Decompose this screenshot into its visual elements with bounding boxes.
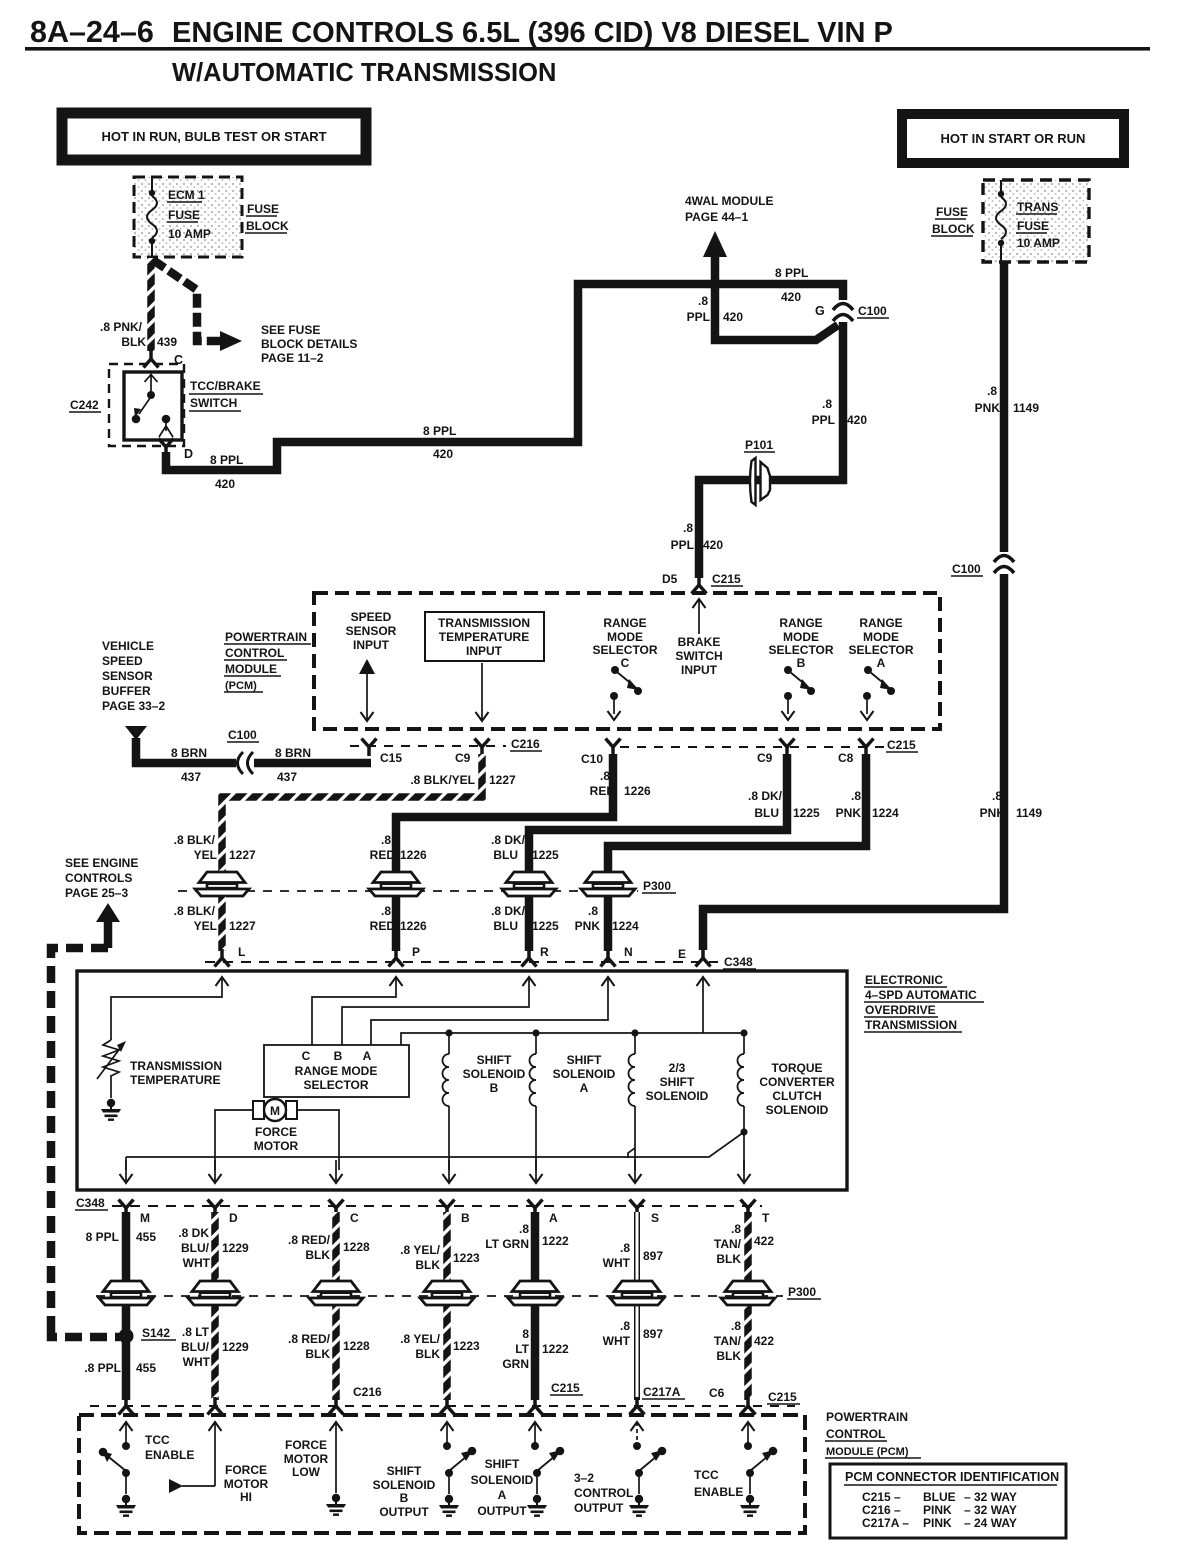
svg-text:.8 RED/: .8 RED/ xyxy=(288,1332,331,1346)
svg-text:.8: .8 xyxy=(381,904,391,918)
svg-text:A: A xyxy=(580,1081,589,1095)
label .8 LT GRN 1222 (upper) xyxy=(485,1222,569,1251)
label C348 (top) xyxy=(723,955,756,969)
label .8 BLK/YEL 1227 (below grommet) xyxy=(174,904,256,933)
node E xyxy=(678,947,711,967)
svg-text:10 AMP: 10 AMP xyxy=(168,227,211,241)
svg-text:ENABLE: ENABLE xyxy=(145,1448,194,1462)
svg-text:455: 455 xyxy=(136,1361,156,1375)
wire .8 PPL 420 from C100 to P101 to D5 xyxy=(699,322,843,578)
label .8 RED/BLK 1228 (lower) xyxy=(288,1332,370,1361)
svg-text:RED: RED xyxy=(590,784,616,798)
svg-text:.8 BLK/: .8 BLK/ xyxy=(174,904,216,918)
node C (C348) xyxy=(329,1200,360,1226)
svg-text:C: C xyxy=(350,1211,359,1225)
svg-text:2/3: 2/3 xyxy=(669,1061,686,1075)
feed box HOT IN START OR RUN xyxy=(902,114,1124,163)
svg-text:1228: 1228 xyxy=(343,1339,370,1353)
svg-text:BRAKE: BRAKE xyxy=(678,635,721,649)
svg-text:SHIFT: SHIFT xyxy=(485,1457,520,1471)
svg-text:.8 YEL/: .8 YEL/ xyxy=(400,1332,440,1346)
svg-text:8 PPL: 8 PPL xyxy=(86,1230,119,1244)
svg-text:1225: 1225 xyxy=(793,806,820,820)
svg-text:420: 420 xyxy=(703,538,723,552)
label 8 PPL 420 (lower left) xyxy=(210,453,243,491)
svg-text:MODE: MODE xyxy=(607,630,643,644)
thermistor lead + ground xyxy=(110,1075,112,1098)
wire .8 WHT 897 (S column, white) xyxy=(634,1212,640,1400)
svg-text:C: C xyxy=(621,656,630,670)
entry arrow E (transmission) xyxy=(697,977,710,986)
svg-text:FORCE: FORCE xyxy=(225,1463,267,1477)
label .8 PNK 1224 (top) xyxy=(836,789,899,820)
svg-text:CONVERTER: CONVERTER xyxy=(759,1075,835,1089)
svg-text:PINK: PINK xyxy=(923,1516,952,1530)
label BRAKE SWITCH INPUT xyxy=(675,635,722,677)
connector P101 xyxy=(744,438,775,505)
svg-text:TORQUE: TORQUE xyxy=(771,1061,822,1075)
svg-text:.8 RED/: .8 RED/ xyxy=(288,1233,331,1247)
svg-text:BLK: BLK xyxy=(415,1347,440,1361)
svg-text:TAN/: TAN/ xyxy=(714,1237,742,1251)
svg-text:420: 420 xyxy=(215,477,235,491)
svg-text:TCC: TCC xyxy=(694,1468,719,1482)
switch range mode selector B xyxy=(782,666,816,720)
node D (TCC/brake switch) xyxy=(159,439,194,462)
svg-text:RANGE: RANGE xyxy=(859,616,902,630)
svg-text:S: S xyxy=(651,1211,659,1225)
svg-text:420: 420 xyxy=(723,310,743,324)
svg-text:PAGE 25–3: PAGE 25–3 xyxy=(65,886,128,900)
svg-text:SELECTOR: SELECTOR xyxy=(592,643,657,657)
svg-text:C217A –: C217A – xyxy=(862,1516,909,1530)
wire 8 PPL dashed feed (left side) xyxy=(51,948,120,1337)
switch range mode selector A xyxy=(861,666,896,720)
node A (bottom PCM) xyxy=(528,1397,543,1415)
label 8 BRN 437 (left) xyxy=(171,746,207,784)
arrow from VSS buffer xyxy=(125,726,147,740)
svg-text:PCM CONNECTOR IDENTIFICATION: PCM CONNECTOR IDENTIFICATION xyxy=(845,1470,1059,1484)
svg-text:A: A xyxy=(549,1211,558,1225)
label .8 TAN/BLK 422 (upper) xyxy=(714,1222,774,1266)
svg-text:BLOCK DETAILS: BLOCK DETAILS xyxy=(261,337,357,351)
svg-text:C15: C15 xyxy=(380,751,402,765)
label RANGE MODE SELECTOR B xyxy=(768,616,833,670)
wire M column drop xyxy=(125,1157,127,1170)
svg-text:SEE ENGINE: SEE ENGINE xyxy=(65,856,138,870)
svg-text:BLK: BLK xyxy=(716,1349,741,1363)
bulkhead dashed line P300 (lower) xyxy=(96,1295,783,1297)
grommet P300 D xyxy=(188,1281,242,1305)
svg-text:C215: C215 xyxy=(551,1381,580,1395)
label .8 DK BLU/WHT 1229 (upper) xyxy=(178,1226,249,1270)
wire P to range selector pin C xyxy=(312,977,396,1045)
label TCC/BRAKE SWITCH xyxy=(189,379,263,411)
svg-text:FUSE: FUSE xyxy=(1017,219,1049,233)
label 8 LT GRN 1222 (lower) xyxy=(502,1327,569,1371)
svg-text:PINK: PINK xyxy=(923,1503,952,1517)
label .8 RED 1226 (above grommet) xyxy=(370,833,427,862)
node T (bottom PCM) xyxy=(741,1397,756,1415)
grommet P300 A xyxy=(508,1281,562,1305)
svg-text:SPEED: SPEED xyxy=(351,610,392,624)
svg-text:RED: RED xyxy=(370,848,396,862)
label RANGE MODE SELECTOR C xyxy=(592,616,657,670)
svg-text:– 24 WAY: – 24 WAY xyxy=(964,1516,1017,1530)
switch TCC/BRAKE xyxy=(124,372,182,440)
svg-text:P: P xyxy=(412,945,420,959)
note VEHICLE SPEED SENSOR BUFFER PAGE 33-2 xyxy=(102,639,165,713)
svg-text:420: 420 xyxy=(781,290,801,304)
arrow force motor hi xyxy=(169,1479,183,1493)
connector line C215 (bottom) xyxy=(620,746,884,748)
svg-text:FUSE: FUSE xyxy=(168,208,200,222)
svg-text:SOLENOID: SOLENOID xyxy=(553,1067,616,1081)
svg-text:C348: C348 xyxy=(76,1196,105,1210)
svg-text:G: G xyxy=(815,304,825,318)
label TCC ENABLE (left) xyxy=(145,1433,194,1462)
svg-text:PPL: PPL xyxy=(812,413,835,427)
entry arrow D (bottom PCM) xyxy=(209,1422,222,1486)
wire R to range selector pin B xyxy=(342,977,529,1045)
svg-text:BLU/: BLU/ xyxy=(181,1340,210,1354)
exit arrow A (transmission) xyxy=(530,1160,543,1183)
svg-text:.8 DK: .8 DK xyxy=(178,1226,209,1240)
svg-text:ELECTRONIC: ELECTRONIC xyxy=(865,973,943,987)
svg-text:.8 DK/: .8 DK/ xyxy=(491,833,526,847)
label C215 (T column) xyxy=(767,1390,800,1404)
node L xyxy=(215,945,246,967)
svg-text:422: 422 xyxy=(754,1334,774,1348)
switch SHIFT SOLENOID A OUTPUT xyxy=(531,1442,564,1494)
svg-text:INPUT: INPUT xyxy=(353,638,390,652)
svg-text:W/AUTOMATIC TRANSMISSION: W/AUTOMATIC TRANSMISSION xyxy=(172,59,556,87)
svg-text:C215 –: C215 – xyxy=(862,1490,901,1504)
switch 3-2 CONTROL OUTPUT xyxy=(633,1442,666,1494)
svg-text:897: 897 xyxy=(643,1249,663,1263)
transmission temp arrow xyxy=(476,663,489,721)
svg-text:MODE: MODE xyxy=(863,630,899,644)
svg-text:MOTOR: MOTOR xyxy=(254,1139,299,1153)
svg-text:.8: .8 xyxy=(600,769,610,783)
label P300 xyxy=(642,879,676,893)
svg-text:TCC: TCC xyxy=(145,1433,170,1447)
label FUSE BLOCK (left) xyxy=(245,202,289,233)
junction TCC solenoid feed xyxy=(740,1029,747,1036)
svg-text:D: D xyxy=(184,447,193,461)
svg-text:BLU: BLU xyxy=(754,806,779,820)
wire 8 BRN 437 xyxy=(136,738,371,763)
svg-text:.8: .8 xyxy=(519,1222,529,1236)
svg-text:BLU: BLU xyxy=(493,919,518,933)
svg-text:C9: C9 xyxy=(455,751,471,765)
svg-text:GRN: GRN xyxy=(502,1357,529,1371)
svg-text:C217A: C217A xyxy=(643,1385,681,1399)
label RANGE MODE SELECTOR A xyxy=(848,616,913,670)
svg-text:420: 420 xyxy=(847,413,867,427)
exit arrow C (transmission) xyxy=(330,1160,343,1183)
exit arrow B (transmission) xyxy=(443,1160,456,1183)
svg-text:CONTROL: CONTROL xyxy=(225,646,284,660)
connector C100 (right) xyxy=(951,552,1016,576)
svg-text:SENSOR: SENSOR xyxy=(346,624,397,638)
svg-text:SOLENOID: SOLENOID xyxy=(766,1103,829,1117)
svg-text:YEL: YEL xyxy=(194,919,217,933)
svg-text:422: 422 xyxy=(754,1234,774,1248)
label .8 PNK/BLK 439 xyxy=(100,320,177,349)
svg-text:8 BRN: 8 BRN xyxy=(275,746,311,760)
svg-text:4–SPD AUTOMATIC: 4–SPD AUTOMATIC xyxy=(865,988,977,1002)
label .8 YEL/BLK 1223 (upper) xyxy=(400,1243,480,1272)
transmission box xyxy=(77,971,847,1190)
wire force motor left xyxy=(215,1110,252,1170)
exit arrow M (transmission) xyxy=(120,1160,133,1183)
wire 8 PPL 455 (M column) xyxy=(122,1212,131,1400)
entry arrow R (transmission) xyxy=(523,977,536,986)
junction TCC solenoid return xyxy=(740,1128,747,1135)
node S (bottom PCM) xyxy=(630,1397,645,1415)
PCM dashed box xyxy=(314,593,940,729)
label .8 PPL 420 (4wal drop) xyxy=(687,294,744,324)
wire .8 DK BLU/WHT 1229 (D column) xyxy=(211,1212,219,1400)
svg-text:MODULE (PCM): MODULE (PCM) xyxy=(826,1446,909,1458)
return rail xyxy=(126,1132,744,1157)
arrow see engine controls xyxy=(96,903,120,922)
box TRANSMISSION TEMPERATURE INPUT xyxy=(425,612,544,661)
label C215 (pcm bottom) xyxy=(886,738,918,752)
svg-text:1229: 1229 xyxy=(222,1241,249,1255)
svg-text:PAGE 11–2: PAGE 11–2 xyxy=(261,351,324,365)
svg-text:1149: 1149 xyxy=(1013,401,1039,415)
svg-text:8: 8 xyxy=(522,1327,529,1341)
wire .8 DK/BLU 1225 (below grommet) xyxy=(525,895,534,951)
junction solenoid A feed xyxy=(532,1029,539,1036)
arrow to 4WAL module xyxy=(703,231,727,257)
svg-text:MODE: MODE xyxy=(783,630,819,644)
svg-text:SELECTOR: SELECTOR xyxy=(303,1078,368,1092)
svg-text:.8 BLK/YEL: .8 BLK/YEL xyxy=(410,773,475,787)
svg-text:TRANSMISSION: TRANSMISSION xyxy=(130,1059,222,1073)
label .8 YEL/BLK 1223 (lower) xyxy=(400,1332,480,1361)
svg-text:C100: C100 xyxy=(858,304,887,318)
splice S142 xyxy=(119,1326,177,1344)
svg-text:SOLENOID: SOLENOID xyxy=(463,1067,526,1081)
svg-text:S142: S142 xyxy=(142,1326,170,1340)
label FORCE MOTOR (internal) xyxy=(254,1125,299,1153)
entry arrow N (transmission) xyxy=(602,977,615,986)
label C215 (A column) xyxy=(550,1381,583,1395)
entry arrow M (bottom PCM) xyxy=(120,1422,133,1443)
svg-text:WHT: WHT xyxy=(603,1256,631,1270)
label SPEED SENSOR INPUT xyxy=(346,610,397,652)
label TCC ENABLE (right) xyxy=(694,1468,743,1499)
wire .8 RED/BLK 1228 (C column) xyxy=(332,1212,340,1400)
svg-text:SHIFT: SHIFT xyxy=(387,1464,422,1478)
svg-text:1227: 1227 xyxy=(489,773,516,787)
svg-text:BLK: BLK xyxy=(305,1347,330,1361)
svg-text:WHT: WHT xyxy=(183,1256,211,1270)
label 2/3 SHIFT SOLENOID xyxy=(646,1061,709,1103)
svg-text:8 PPL: 8 PPL xyxy=(775,266,808,280)
svg-text:ECM 1: ECM 1 xyxy=(168,188,205,202)
svg-text:.8: .8 xyxy=(698,294,708,308)
svg-text:CONTROL: CONTROL xyxy=(574,1486,633,1500)
svg-text:C10: C10 xyxy=(581,752,603,766)
svg-text:B: B xyxy=(490,1081,499,1095)
svg-text:BLU/: BLU/ xyxy=(181,1241,210,1255)
svg-text:1222: 1222 xyxy=(542,1342,569,1356)
bulkhead dashed line P300 xyxy=(178,890,638,892)
node C (TCC/brake switch) xyxy=(144,350,184,368)
svg-text:OUTPUT: OUTPUT xyxy=(574,1501,624,1515)
svg-text:RANGE MODE: RANGE MODE xyxy=(295,1064,378,1078)
svg-text:PPL: PPL xyxy=(687,310,710,324)
svg-text:8 PPL: 8 PPL xyxy=(210,453,243,467)
svg-text:.8: .8 xyxy=(381,833,391,847)
svg-text:BLU: BLU xyxy=(493,848,518,862)
note 4WAL MODULE PAGE 44-1 xyxy=(685,194,773,224)
grommet P300 B xyxy=(420,1281,474,1305)
node M (bottom PCM) xyxy=(119,1397,134,1415)
wire force motor hi stub xyxy=(182,1485,215,1487)
svg-text:ENABLE: ENABLE xyxy=(694,1485,743,1499)
svg-text:PNK: PNK xyxy=(975,401,1001,415)
svg-text:ENGINE CONTROLS 6.5L (396 CID): ENGINE CONTROLS 6.5L (396 CID) V8 DIESEL… xyxy=(172,17,893,49)
svg-text:C9: C9 xyxy=(757,751,773,765)
exit arrow T (transmission) xyxy=(738,1160,751,1183)
label C242 xyxy=(69,398,101,412)
svg-text:1226: 1226 xyxy=(624,784,651,798)
label .8 PNK 1149 (upper) xyxy=(975,384,1040,415)
svg-text:PNK: PNK xyxy=(836,806,862,820)
svg-text:INPUT: INPUT xyxy=(466,644,503,658)
svg-text:RANGE: RANGE xyxy=(779,616,822,630)
svg-text:B: B xyxy=(797,656,806,670)
svg-text:1222: 1222 xyxy=(542,1234,569,1248)
wire N to range selector pin A xyxy=(371,977,608,1045)
label POWERTRAIN CONTROL MODULE (PCM) xyxy=(224,630,311,692)
svg-text:MOTOR: MOTOR xyxy=(224,1477,269,1491)
svg-text:1228: 1228 xyxy=(343,1240,370,1254)
wire branch to fuse block details xyxy=(153,260,221,341)
svg-text:WHT: WHT xyxy=(183,1355,211,1369)
label TORQUE CONVERTER CLUTCH SOLENOID xyxy=(759,1061,835,1117)
table PCM CONNECTOR IDENTIFICATION xyxy=(830,1464,1066,1538)
svg-text:C215: C215 xyxy=(712,572,741,586)
svg-text:.8: .8 xyxy=(620,1241,630,1255)
fuse block TRANS FUSE 10 AMP xyxy=(983,180,1089,262)
label SHIFT SOLENOID B OUTPUT xyxy=(373,1464,436,1519)
svg-text:.8 BLK/: .8 BLK/ xyxy=(174,833,216,847)
node C (bottom PCM) xyxy=(329,1397,344,1415)
node N xyxy=(601,945,633,967)
label .8 RED/BLK 1228 (upper) xyxy=(288,1233,370,1262)
entry arrow C (bottom PCM) xyxy=(330,1422,343,1493)
svg-text:CONTROLS: CONTROLS xyxy=(65,871,132,885)
switch range mode selector C xyxy=(608,666,643,720)
brake switch input arrow xyxy=(693,599,706,634)
svg-text:1149: 1149 xyxy=(1016,806,1042,820)
force motor M xyxy=(253,1099,297,1121)
svg-text:C100: C100 xyxy=(228,728,257,742)
svg-text:C100: C100 xyxy=(952,562,981,576)
label .8 PNK 1149 (lower) xyxy=(980,789,1043,820)
label FUSE BLOCK (right) xyxy=(931,205,975,236)
label 3-2 CONTROL OUTPUT xyxy=(574,1471,633,1515)
svg-text:C: C xyxy=(302,1049,311,1063)
svg-text:897: 897 xyxy=(643,1327,663,1341)
connector line C348 (bottom) xyxy=(112,1205,762,1207)
label .8 DK/BLU 1225 (top) xyxy=(748,789,820,820)
svg-text:– 32 WAY: – 32 WAY xyxy=(964,1490,1017,1504)
node D (C348) xyxy=(208,1200,239,1226)
svg-text:.8: .8 xyxy=(992,789,1002,803)
wire .8 PNK/BLK 439 xyxy=(147,258,155,351)
svg-text:CONTROL: CONTROL xyxy=(826,1427,885,1441)
thermistor transmission temperature xyxy=(97,1040,126,1079)
wire force motor right xyxy=(298,1110,339,1170)
entry arrow B (bottom PCM) xyxy=(441,1422,454,1443)
svg-text:POWERTRAIN: POWERTRAIN xyxy=(225,630,307,644)
svg-text:CLUTCH: CLUTCH xyxy=(772,1089,821,1103)
svg-text:.8: .8 xyxy=(620,1319,630,1333)
svg-text:TAN/: TAN/ xyxy=(714,1334,742,1348)
svg-text:HI: HI xyxy=(240,1490,252,1504)
svg-text:TCC/BRAKE: TCC/BRAKE xyxy=(190,379,261,393)
node G / connector C100 xyxy=(815,300,855,322)
svg-text:8A–24–6: 8A–24–6 xyxy=(30,15,154,49)
svg-text:SOLENOID: SOLENOID xyxy=(471,1473,534,1487)
label P300 (lower) xyxy=(787,1285,821,1299)
node D (bottom PCM) xyxy=(208,1397,223,1415)
svg-text:1223: 1223 xyxy=(453,1339,480,1353)
label .8 DK/BLU 1225 (above grommet) xyxy=(491,833,559,862)
switch SHIFT SOLENOID B OUTPUT xyxy=(443,1442,476,1494)
svg-text:FUSE: FUSE xyxy=(247,202,279,216)
wire .8 TAN/BLK 422 (T column) xyxy=(744,1212,752,1400)
coil 2/3 SHIFT SOLENOID xyxy=(634,1036,636,1054)
fuse symbol ECM1 xyxy=(147,177,157,258)
svg-text:SELECTOR: SELECTOR xyxy=(848,643,913,657)
svg-text:D: D xyxy=(229,1211,238,1225)
label TRANSMISSION TEMPERATURE (internal) xyxy=(130,1059,222,1087)
svg-text:1225: 1225 xyxy=(532,919,559,933)
svg-text:439: 439 xyxy=(157,335,177,349)
label .8 TAN/BLK 422 (lower) xyxy=(714,1319,774,1363)
svg-text:TEMPERATURE: TEMPERATURE xyxy=(439,630,529,644)
label 8 PPL 420 (top) xyxy=(775,266,808,304)
wire .8 RED 1226 (below grommet) xyxy=(392,895,401,951)
wire 8 PPL 420 from switch D to C100 G xyxy=(166,284,843,470)
svg-text:BLK: BLK xyxy=(415,1258,440,1272)
svg-text:T: T xyxy=(762,1211,770,1225)
label .8 WHT 897 (lower) xyxy=(603,1319,664,1348)
svg-text:.8: .8 xyxy=(822,397,832,411)
svg-text:LOW: LOW xyxy=(292,1465,321,1479)
svg-text:B: B xyxy=(400,1491,409,1505)
connector C100 (on BRN wire) xyxy=(227,728,259,775)
svg-text:3–2: 3–2 xyxy=(574,1471,594,1485)
wire .8 DK BLU 1225 (C9 to R) xyxy=(529,754,787,872)
label .8 LT BLU/WHT 1229 (lower) xyxy=(181,1325,249,1369)
entry arrow L (transmission) xyxy=(216,977,229,986)
svg-text:C6: C6 xyxy=(709,1386,725,1400)
grommet P300 M xyxy=(99,1281,153,1305)
entry arrow P (transmission) xyxy=(390,977,403,986)
wire E feed rail xyxy=(401,977,744,1045)
ground (T column) xyxy=(740,1495,760,1517)
node S (C348) xyxy=(630,1200,660,1226)
